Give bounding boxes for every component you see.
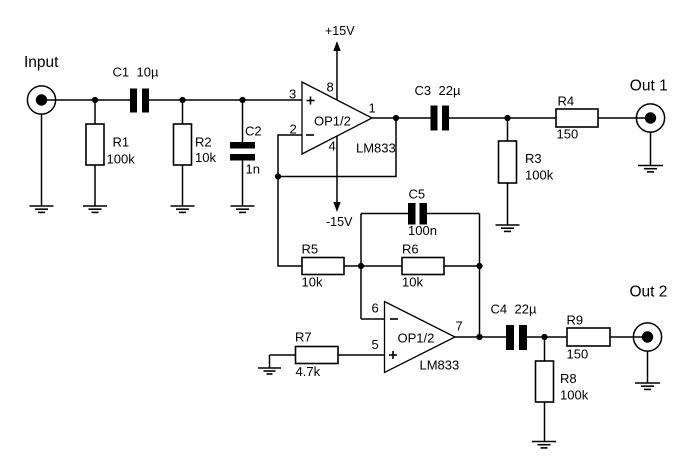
svg-text:R2: R2 (195, 135, 212, 150)
svg-text:22µ: 22µ (439, 83, 461, 98)
svg-text:100k: 100k (107, 152, 136, 167)
svg-text:+15V: +15V (325, 24, 355, 38)
svg-text:2: 2 (290, 122, 297, 137)
svg-text:R1: R1 (113, 135, 130, 150)
svg-text:R3: R3 (525, 151, 542, 166)
svg-text:6: 6 (372, 301, 379, 316)
svg-text:R6: R6 (402, 242, 419, 257)
svg-text:Out 2: Out 2 (630, 284, 668, 301)
svg-text:C2: C2 (245, 124, 262, 139)
svg-text:R7: R7 (295, 330, 312, 345)
svg-text:150: 150 (557, 127, 579, 142)
svg-text:-15V: -15V (326, 215, 353, 229)
svg-text:C1: C1 (113, 65, 130, 80)
svg-text:100k: 100k (560, 388, 589, 403)
svg-text:Input: Input (24, 54, 59, 71)
svg-text:C3: C3 (415, 83, 432, 98)
svg-text:5: 5 (372, 337, 379, 352)
svg-text:150: 150 (567, 347, 589, 362)
svg-text:LM833: LM833 (356, 141, 396, 156)
svg-text:100k: 100k (525, 168, 554, 183)
svg-text:R8: R8 (560, 371, 577, 386)
svg-text:10k: 10k (402, 275, 423, 290)
svg-text:100n: 100n (408, 223, 437, 238)
svg-text:R4: R4 (558, 94, 575, 109)
svg-text:4.7k: 4.7k (296, 364, 321, 379)
svg-text:1: 1 (369, 101, 376, 116)
svg-text:10k: 10k (302, 275, 323, 290)
svg-text:10µ: 10µ (137, 65, 159, 80)
svg-text:R5: R5 (302, 242, 319, 257)
svg-text:R9: R9 (567, 313, 584, 328)
svg-text:3: 3 (289, 87, 296, 102)
svg-text:OP1/2: OP1/2 (314, 114, 351, 129)
svg-text:10k: 10k (195, 150, 216, 165)
svg-text:C4: C4 (491, 302, 508, 317)
svg-text:OP1/2: OP1/2 (398, 331, 435, 346)
svg-text:Out 1: Out 1 (630, 78, 668, 95)
svg-text:1n: 1n (246, 162, 260, 177)
svg-text:4: 4 (329, 139, 336, 154)
svg-text:7: 7 (456, 319, 463, 334)
svg-text:LM833: LM833 (420, 358, 460, 373)
svg-text:C5: C5 (409, 187, 426, 202)
svg-text:8: 8 (327, 80, 334, 95)
svg-text:22µ: 22µ (515, 302, 537, 317)
